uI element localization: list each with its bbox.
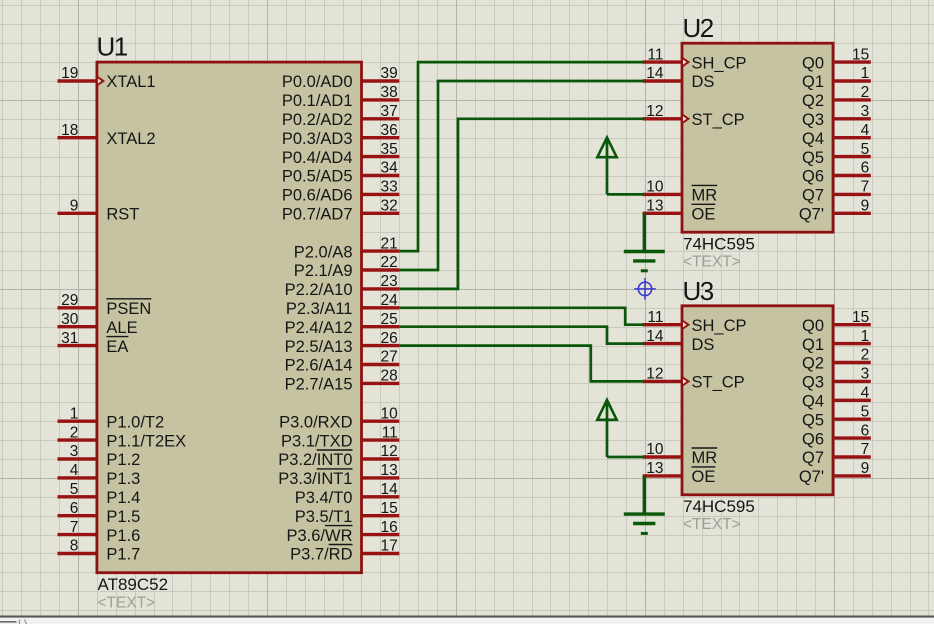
svg-text:12: 12 <box>381 443 398 460</box>
svg-text:37: 37 <box>381 103 398 120</box>
svg-text:Q0: Q0 <box>802 317 824 335</box>
svg-text:P2.6/A14: P2.6/A14 <box>285 357 353 375</box>
U3 pin 6 (Q6) <box>833 436 871 439</box>
svg-text:P1.2: P1.2 <box>106 451 140 469</box>
svg-text:AT89C52: AT89C52 <box>98 575 169 594</box>
svg-text:24: 24 <box>381 292 399 309</box>
U1 pin 33 (P0.6/AD6) <box>362 193 400 196</box>
svg-text:P0.2/AD2: P0.2/AD2 <box>282 111 353 129</box>
wire P2.2/A10 (U1 pin23) to U2 ST_CP <box>399 119 644 289</box>
svg-text:P2.4/A12: P2.4/A12 <box>285 319 353 337</box>
svg-text:4: 4 <box>861 122 870 139</box>
svg-text:P1.4: P1.4 <box>106 489 140 507</box>
svg-text:P1.7: P1.7 <box>106 546 140 564</box>
svg-text:<TEXT>: <TEXT> <box>683 254 741 271</box>
svg-text:P3.4/T0: P3.4/T0 <box>295 489 353 507</box>
svg-text:OE: OE <box>692 468 716 486</box>
svg-text:P3.6/WR: P3.6/WR <box>286 527 352 545</box>
U1 pin 29 (PSEN) <box>58 306 97 309</box>
svg-text:15: 15 <box>852 309 869 326</box>
U2 pin 2 (Q2) <box>833 98 871 101</box>
svg-text:11: 11 <box>647 46 663 63</box>
IC U2 body (74HC595) <box>682 43 833 232</box>
svg-text:P0.3/AD3: P0.3/AD3 <box>282 130 353 148</box>
power symbol VCC feeding U3 MR <box>606 403 609 458</box>
svg-text:16: 16 <box>381 519 398 536</box>
U1 pin 7 (P1.6) <box>58 533 97 536</box>
U1 pin 6 (P1.5) <box>58 514 97 517</box>
svg-text:Q2: Q2 <box>802 355 824 373</box>
svg-text:PSEN: PSEN <box>106 300 151 318</box>
U1 pin 18 (XTAL2) <box>58 136 97 139</box>
svg-text:6: 6 <box>861 422 870 439</box>
U2 pin 1 (Q1) <box>833 79 871 82</box>
U1 pin 30 (ALE) <box>58 325 97 328</box>
svg-text:P1.3: P1.3 <box>106 470 140 488</box>
wire P2.3/A11 (U1 pin24) to U3 SH_CP <box>399 308 644 325</box>
svg-text:1: 1 <box>861 65 870 82</box>
U2 pin 9 (Q7') <box>833 212 871 215</box>
U3 pin 14 (DS) <box>643 342 682 345</box>
svg-text:10: 10 <box>381 405 399 422</box>
U1 pin 4 (P1.3) <box>58 476 97 479</box>
svg-text:U3: U3 <box>683 276 714 306</box>
wire P2.0/A8 (U1 pin21) to U2 SH_CP <box>399 62 644 251</box>
svg-text:32: 32 <box>381 198 398 215</box>
svg-text:MR: MR <box>692 449 718 467</box>
svg-text:9: 9 <box>861 198 870 215</box>
U1 pin 1 (P1.0/T2) <box>58 420 97 423</box>
U2 pin 14 (DS) <box>643 79 682 82</box>
svg-text:P2.2/A10: P2.2/A10 <box>285 281 353 299</box>
svg-text:RST: RST <box>106 206 139 224</box>
U3 pin 3 (Q3) <box>833 380 871 383</box>
svg-text:P0.5/AD5: P0.5/AD5 <box>282 168 353 186</box>
svg-text:XTAL1: XTAL1 <box>106 73 155 91</box>
svg-text:9: 9 <box>861 460 870 477</box>
svg-text:P0.4/AD4: P0.4/AD4 <box>282 149 353 167</box>
ground symbol on U3 OE <box>643 476 647 514</box>
svg-text:33: 33 <box>381 179 398 196</box>
wire P2.1/A9 (U1 pin22) to U2 DS <box>399 81 644 270</box>
svg-text:P1.5: P1.5 <box>106 508 140 526</box>
svg-text:30: 30 <box>61 311 79 328</box>
svg-text:Q5: Q5 <box>802 411 824 429</box>
svg-text:Q4: Q4 <box>802 130 824 148</box>
svg-text:OE: OE <box>692 206 716 224</box>
svg-text:1: 1 <box>70 405 79 422</box>
svg-text:39: 39 <box>381 65 398 82</box>
svg-text:Q2: Q2 <box>802 92 824 110</box>
window area below canvas <box>0 618 934 624</box>
svg-text:26: 26 <box>381 330 398 347</box>
svg-text:35: 35 <box>381 141 398 158</box>
U3 pin 4 (Q4) <box>833 399 871 402</box>
U1 pin 16 (P3.6/WR) <box>362 533 400 536</box>
svg-text:12: 12 <box>646 366 663 383</box>
svg-text:ALE: ALE <box>106 319 137 337</box>
U3 pin 5 (Q5) <box>833 418 871 421</box>
svg-text:36: 36 <box>381 122 398 139</box>
svg-text:Q6: Q6 <box>802 168 824 186</box>
U2 pin 5 (Q5) <box>833 155 871 158</box>
U2 pin 10 (MR) <box>643 193 682 196</box>
svg-text:14: 14 <box>381 481 399 498</box>
U1 pin 26 (P2.5/A13) <box>362 344 400 347</box>
svg-text:P2.0/A8: P2.0/A8 <box>294 243 353 261</box>
U1 pin 14 (P3.4/T0) <box>362 495 400 498</box>
svg-text:5: 5 <box>70 481 79 498</box>
svg-text:27: 27 <box>381 349 398 366</box>
svg-text:Q7: Q7 <box>802 449 824 467</box>
svg-text:9: 9 <box>70 198 79 215</box>
svg-text:2: 2 <box>861 347 870 364</box>
svg-text:Q7': Q7' <box>799 468 824 486</box>
svg-text:Q3: Q3 <box>802 111 824 129</box>
U1 pin 19 (XTAL1) <box>58 79 97 82</box>
partial UI fragment bottom-left <box>0 621 17 623</box>
svg-text:Q1: Q1 <box>802 336 824 354</box>
svg-text:P3.2/INT0: P3.2/INT0 <box>278 451 352 469</box>
svg-text:4: 4 <box>861 385 870 402</box>
U2 pin 15 (Q0) <box>833 60 871 63</box>
svg-text:4: 4 <box>70 462 79 479</box>
svg-text:P3.1/TXD: P3.1/TXD <box>281 432 353 450</box>
U1 pin 3 (P1.2) <box>58 457 97 460</box>
svg-text:Q5: Q5 <box>802 149 824 167</box>
U1 pin 39 (P0.0/AD0) <box>362 79 400 82</box>
svg-text:P2.3/A11: P2.3/A11 <box>286 300 353 318</box>
U1 pin 27 (P2.6/A14) <box>362 363 400 366</box>
svg-text:P2.1/A9: P2.1/A9 <box>294 262 353 280</box>
svg-text:8: 8 <box>70 538 79 555</box>
svg-text:Q6: Q6 <box>802 430 824 448</box>
svg-text:P1.1/T2EX: P1.1/T2EX <box>106 432 186 450</box>
svg-text:XTAL2: XTAL2 <box>106 130 155 148</box>
svg-text:Q3: Q3 <box>802 374 824 392</box>
U2 pin 7 (Q7) <box>833 193 871 196</box>
U3 pin 7 (Q7) <box>833 455 871 458</box>
svg-text:29: 29 <box>61 292 78 309</box>
svg-text:<TEXT>: <TEXT> <box>98 595 156 612</box>
svg-text:3: 3 <box>861 366 870 383</box>
svg-text:13: 13 <box>381 462 398 479</box>
U1 pin 31 (EA) <box>58 344 97 347</box>
U1 pin 23 (P2.2/A10) <box>362 287 400 290</box>
svg-text:SH_CP: SH_CP <box>692 317 747 335</box>
U3 pin 1 (Q1) <box>833 342 871 345</box>
svg-text:7: 7 <box>861 179 870 196</box>
U1 pin 15 (P3.5/T1) <box>362 514 400 517</box>
svg-text:1: 1 <box>861 328 870 345</box>
svg-text:MR: MR <box>692 187 718 205</box>
U1 pin 35 (P0.4/AD4) <box>362 155 400 158</box>
svg-text:U2: U2 <box>683 13 714 43</box>
svg-text:P1.0/T2: P1.0/T2 <box>106 413 164 431</box>
U1 pin 37 (P0.2/AD2) <box>362 117 400 120</box>
svg-text:P0.1/AD1: P0.1/AD1 <box>282 92 353 110</box>
svg-text:P3.3/INT1: P3.3/INT1 <box>278 470 352 488</box>
svg-text:P0.7/AD7: P0.7/AD7 <box>282 206 353 224</box>
svg-text:22: 22 <box>381 254 398 271</box>
svg-text:6: 6 <box>70 500 79 517</box>
U1 pin 34 (P0.5/AD5) <box>362 174 400 177</box>
svg-text:P1.6: P1.6 <box>106 527 140 545</box>
U1 pin 13 (P3.3/INT1) <box>362 476 400 479</box>
svg-text:Q7': Q7' <box>799 206 824 224</box>
svg-text:P3.5/T1: P3.5/T1 <box>295 508 353 526</box>
U1 pin 12 (P3.2/INT0) <box>362 457 400 460</box>
svg-text:5: 5 <box>861 141 870 158</box>
svg-text:10: 10 <box>646 441 664 458</box>
svg-text:ST_CP: ST_CP <box>692 111 745 129</box>
svg-text:11: 11 <box>647 309 663 326</box>
U3 pin 9 (Q7') <box>833 474 871 477</box>
svg-text:23: 23 <box>381 273 398 290</box>
U1 pin 2 (P1.1/T2EX) <box>58 438 97 441</box>
svg-text:SH_CP: SH_CP <box>692 54 747 72</box>
svg-text:13: 13 <box>646 460 663 477</box>
svg-text:3: 3 <box>70 443 79 460</box>
svg-text:P0.0/AD0: P0.0/AD0 <box>282 73 353 91</box>
svg-text:<TEXT>: <TEXT> <box>683 516 741 533</box>
U1 pin 36 (P0.3/AD3) <box>362 136 400 139</box>
svg-text:Q7: Q7 <box>802 187 824 205</box>
U3 pin 2 (Q2) <box>833 361 871 364</box>
svg-text:15: 15 <box>381 500 398 517</box>
IC U3 body (74HC595) <box>682 306 833 495</box>
svg-text:7: 7 <box>861 441 870 458</box>
svg-text:2: 2 <box>70 424 79 441</box>
U2 pin 11 (SH_CP) <box>643 60 682 63</box>
svg-text:74HC595: 74HC595 <box>683 235 755 254</box>
U1 pin 32 (P0.7/AD7) <box>362 212 400 215</box>
svg-text:10: 10 <box>646 179 664 196</box>
IC U1 body (AT89C52) <box>97 62 362 573</box>
U3 pin 15 (Q0) <box>833 323 871 326</box>
svg-text:15: 15 <box>852 46 869 63</box>
U1 pin 8 (P1.7) <box>58 552 97 555</box>
svg-text:14: 14 <box>646 65 664 82</box>
U1 pin 5 (P1.4) <box>58 495 97 498</box>
ground symbol on U2 OE <box>643 213 647 251</box>
U1 pin 10 (P3.0/RXD) <box>362 420 400 423</box>
svg-text:34: 34 <box>381 160 399 177</box>
svg-text:25: 25 <box>381 311 398 328</box>
U1 pin 24 (P2.3/A11) <box>362 306 400 309</box>
svg-text:13: 13 <box>646 198 663 215</box>
svg-text:Q4: Q4 <box>802 393 824 411</box>
svg-text:Q1: Q1 <box>802 73 824 91</box>
svg-text:5: 5 <box>861 403 870 420</box>
svg-text:DS: DS <box>692 73 715 91</box>
U2 pin 6 (Q6) <box>833 174 871 177</box>
U2 pin 12 (ST_CP) <box>643 117 682 120</box>
U3 pin 11 (SH_CP) <box>643 323 682 326</box>
svg-text:7: 7 <box>70 519 79 536</box>
svg-text:P3.0/RXD: P3.0/RXD <box>279 413 352 431</box>
U1 pin 9 (RST) <box>58 212 97 215</box>
U3 pin 12 (ST_CP) <box>643 380 682 383</box>
svg-text:ST_CP: ST_CP <box>692 374 745 392</box>
wire P2.5/A13 (U1 pin26) to U3 ST_CP <box>399 346 644 382</box>
svg-text:U1: U1 <box>97 31 128 61</box>
svg-text:6: 6 <box>861 160 870 177</box>
U1 pin 38 (P0.1/AD1) <box>362 98 400 101</box>
svg-text:12: 12 <box>646 103 663 120</box>
U3 pin 13 (OE) <box>643 474 682 477</box>
svg-text:Q0: Q0 <box>802 54 824 72</box>
svg-text:38: 38 <box>381 84 398 101</box>
svg-text:2: 2 <box>861 84 870 101</box>
svg-text:31: 31 <box>61 330 78 347</box>
wire P2.4/A12 (U1 pin25) to U3 DS <box>399 327 644 344</box>
power symbol VCC feeding U2 MR <box>606 140 609 195</box>
U2 pin 4 (Q4) <box>833 136 871 139</box>
U2 pin 13 (OE) <box>643 212 682 215</box>
svg-text:11: 11 <box>382 424 398 441</box>
svg-text:18: 18 <box>61 122 78 139</box>
svg-text:P2.5/A13: P2.5/A13 <box>285 338 353 356</box>
U3 pin 10 (MR) <box>643 455 682 458</box>
svg-text:P3.7/RD: P3.7/RD <box>290 546 352 564</box>
U1 pin 11 (P3.1/TXD) <box>362 438 400 441</box>
origin marker (blue crosshair) <box>634 278 656 300</box>
svg-text:14: 14 <box>646 328 664 345</box>
svg-text:28: 28 <box>381 368 398 385</box>
U1 pin 22 (P2.1/A9) <box>362 268 400 271</box>
svg-text:3: 3 <box>861 103 870 120</box>
svg-text:P2.7/A15: P2.7/A15 <box>285 376 353 394</box>
U1 pin 28 (P2.7/A15) <box>362 382 400 385</box>
svg-text:19: 19 <box>61 65 78 82</box>
svg-text:74HC595: 74HC595 <box>683 497 755 516</box>
U1 pin 25 (P2.4/A12) <box>362 325 400 328</box>
canvas bottom border line <box>0 616 934 618</box>
U2 pin 3 (Q3) <box>833 117 871 120</box>
svg-text:DS: DS <box>692 336 715 354</box>
svg-text:EA: EA <box>106 338 128 356</box>
svg-text:P0.6/AD6: P0.6/AD6 <box>282 187 353 205</box>
U1 pin 17 (P3.7/RD) <box>362 552 400 555</box>
svg-text:17: 17 <box>381 538 398 555</box>
svg-text:21: 21 <box>381 235 398 252</box>
U1 pin 21 (P2.0/A8) <box>362 249 400 252</box>
